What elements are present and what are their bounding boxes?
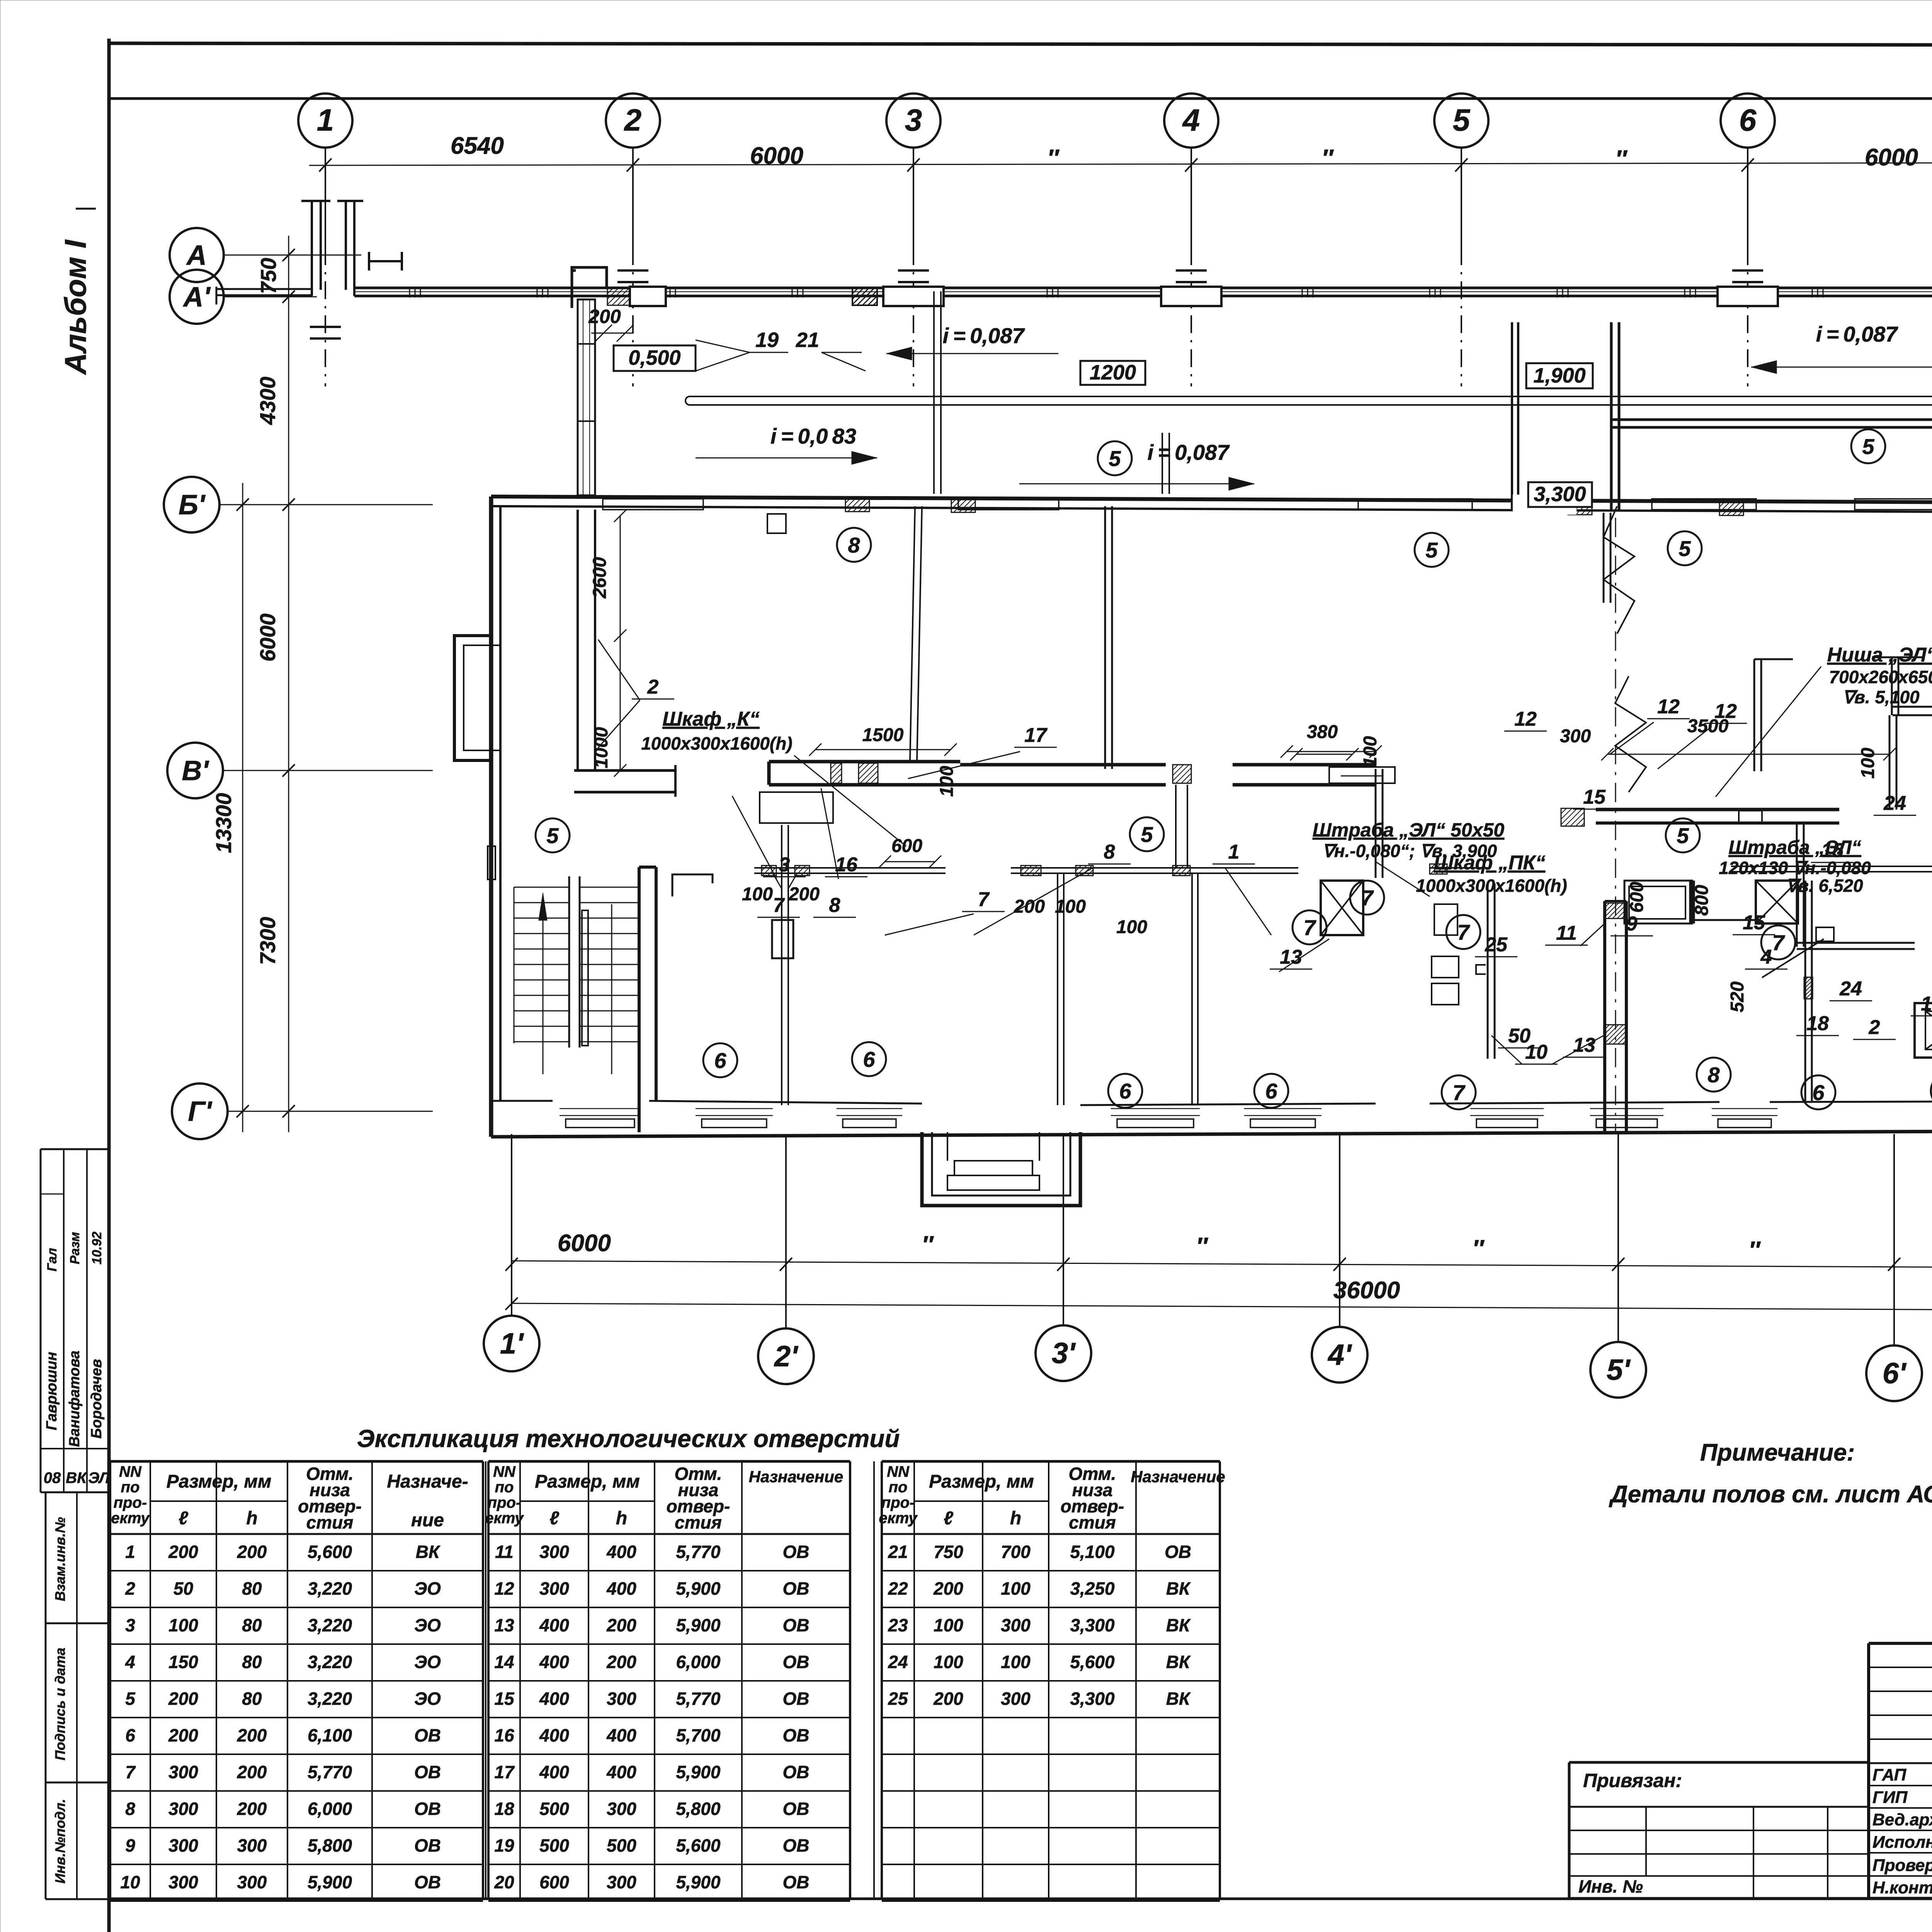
svg-text:100: 100 [934,1652,963,1672]
svg-text:h: h [616,1508,627,1529]
room partition 6-6 a [781,825,782,1105]
svg-text:80: 80 [242,1615,262,1635]
wall y2448 [1797,942,1915,944]
svg-text:ЭЛ: ЭЛ [88,1469,110,1486]
main west wall [489,497,493,1137]
room circle 5 [1130,817,1164,851]
svg-text:Подпись и дата: Подпись и дата [52,1648,68,1760]
svg-text:Инв.№подл.: Инв.№подл. [52,1799,68,1883]
svg-text:7: 7 [1772,930,1785,955]
svg-text:ЭО: ЭО [414,1578,441,1599]
dim tick [505,1298,518,1310]
svg-text:300: 300 [607,1872,636,1892]
svg-text:24: 24 [1839,978,1862,1000]
svg-text:Инв. №: Инв. № [1578,1876,1643,1896]
entrance steps [947,1175,1039,1190]
svg-text:15: 15 [494,1689,515,1709]
svg-text:12: 12 [1657,696,1680,718]
corridor hatch b [795,866,810,876]
partition x4672 hatch [1804,977,1813,999]
axis1 column enclosure [301,201,363,296]
radiator on partition [772,920,793,958]
svg-text:100: 100 [1116,917,1147,937]
explication table 1 [110,1460,483,1463]
svg-text:Бородачев: Бородачев [88,1359,105,1439]
leader 21 [821,352,862,353]
svg-text:300: 300 [168,1835,198,1855]
axis A' circle [170,270,224,324]
svg-text:800: 800 [1692,885,1712,916]
dim tick [236,1105,249,1117]
staircase mid wall [568,876,570,1048]
svg-text:Гаврюшин: Гаврюшин [44,1352,60,1430]
svg-text:стия: стия [675,1512,722,1532]
svg-text:ОВ: ОВ [783,1652,810,1672]
svg-text:100: 100 [1055,896,1086,917]
gamma wall vertical [1889,715,1891,810]
axis 2 circle [606,94,660,148]
corridor hatch e [1173,866,1190,876]
dim tick [1185,158,1197,172]
floor slot opening 21 [685,396,1932,405]
axis 5&#39; circle [1590,1342,1646,1398]
svg-text:ОВ: ОВ [783,1835,810,1855]
axis 5&#39; line [1617,1134,1619,1342]
svg-text:500: 500 [539,1835,569,1855]
south wall window [1244,1108,1321,1109]
north wall windows [603,499,703,510]
partition x3560 [1375,769,1377,878]
svg-text:300: 300 [1560,726,1591,747]
svg-text:200: 200 [933,1578,963,1599]
svg-text:5,900: 5,900 [308,1872,352,1892]
svg-text:i = 0,087: i = 0,087 [1816,322,1899,346]
gallery wall tick marks [409,287,410,298]
svg-text:520: 520 [1727,981,1748,1012]
svg-text:400: 400 [606,1578,636,1599]
axis 4&#39; line [1339,1134,1340,1327]
left stamp name cells [41,1148,109,1150]
lobby wall right [1689,881,1691,923]
svg-text:5,770: 5,770 [308,1762,352,1782]
svg-text:5: 5 [1425,538,1438,562]
svg-text:ОВ: ОВ [783,1799,810,1819]
svg-text:ВК: ВК [1166,1689,1191,1709]
svg-text:200: 200 [237,1725,267,1745]
svg-text:22: 22 [888,1578,908,1599]
svg-text:Примечание:: Примечание: [1700,1439,1855,1466]
svg-text:15: 15 [1583,786,1606,808]
room circle 8 [837,528,871,562]
south wall window [837,1108,902,1109]
room circle 6 [852,1042,886,1076]
south wall window [1470,1108,1544,1109]
svg-text:″: ″ [1748,1237,1761,1264]
svg-text:ОВ: ОВ [414,1799,441,1819]
svg-text:21: 21 [796,328,819,352]
axis 5 circle [1434,94,1488,148]
axis B' leader line [219,504,433,505]
corridor hatch d [1076,866,1093,876]
gamma wall cap [1893,706,1932,708]
gallery wall lower line [354,295,1932,298]
axis 6 line [1747,148,1748,247]
svg-text:4: 4 [125,1652,135,1672]
upper block partition [933,291,935,494]
axis 1&#39; circle [484,1316,539,1371]
svg-text:3,300: 3,300 [1534,483,1586,506]
dim tick [1333,1258,1346,1271]
svg-text:5,100: 5,100 [1070,1542,1115,1562]
svg-text:Назначение: Назначение [749,1468,843,1486]
svg-text:5,900: 5,900 [676,1615,721,1635]
svg-text:80: 80 [242,1689,262,1709]
svg-text:200: 200 [168,1689,198,1709]
svg-text:3500: 3500 [1687,716,1729,736]
wall 3500 thick [1596,808,1839,811]
main north wall upper line [491,497,1932,503]
svg-text:400: 400 [539,1615,569,1635]
svg-text:Б': Б' [179,490,206,520]
title block grid [1869,1642,1932,1645]
svg-text:4': 4' [1327,1338,1352,1371]
mid wall niche b [1329,767,1395,783]
svg-text:80: 80 [242,1652,262,1672]
svg-text:24: 24 [1883,792,1906,815]
corner room west wall lower [577,510,579,770]
svg-text:5,770: 5,770 [676,1689,721,1709]
elevator shaft C [1915,1003,1932,1058]
room circle 8 [1931,1074,1932,1108]
corridor hatch f [1430,864,1447,874]
svg-text:400: 400 [539,1689,569,1709]
svg-text:Провер.: Провер. [1872,1856,1932,1875]
svg-text:19: 19 [755,328,779,352]
svg-text:100: 100 [1858,748,1878,779]
svg-text:5,900: 5,900 [676,1578,721,1599]
svg-text:ОВ: ОВ [414,1872,441,1892]
svg-text:19: 19 [494,1835,514,1855]
svg-text:∇в. 6,520: ∇в. 6,520 [1786,876,1863,896]
axis 5 line [1461,148,1462,247]
svg-text:3: 3 [905,103,922,137]
axis 2&#39; circle [758,1328,814,1384]
svg-text:24: 24 [888,1652,908,1672]
svg-text:″: ″ [1321,145,1334,172]
svg-text:ВК: ВК [1166,1652,1191,1672]
svg-text:17: 17 [494,1762,515,1782]
dim tick [236,498,249,511]
svg-text:6: 6 [1739,103,1757,137]
svg-text:NN: NN [119,1463,142,1480]
svg-text:5,800: 5,800 [308,1835,352,1855]
svg-text:100: 100 [742,884,773,905]
svg-text:200: 200 [168,1725,198,1745]
svg-text:ℓ: ℓ [549,1508,559,1529]
axis B' circle [164,477,219,532]
upper block left window wall [578,299,595,495]
svg-text:200: 200 [606,1652,636,1672]
svg-text:300: 300 [168,1872,198,1892]
svg-text:ние: ние [411,1510,444,1531]
svg-text:400: 400 [606,1725,636,1745]
room circle 6 [1108,1074,1142,1108]
svg-text:100: 100 [1001,1578,1031,1599]
dim tick [282,249,295,261]
svg-text:100: 100 [937,766,957,797]
svg-text:ГИП: ГИП [1872,1788,1908,1807]
svg-text:5,600: 5,600 [1070,1652,1115,1672]
svg-text:ОВ: ОВ [1165,1542,1191,1562]
svg-text:по: по [889,1479,908,1496]
svg-text:5,900: 5,900 [676,1762,721,1782]
svg-text:ВК: ВК [416,1542,440,1562]
svg-text:6000: 6000 [255,614,280,662]
dim tick [627,158,639,172]
svg-text:4: 4 [1182,103,1200,137]
svg-text:ЭО: ЭО [414,1652,441,1672]
axis 1&#39; line [511,1134,512,1316]
room circle 7 [1446,915,1480,949]
mid wall hatch c [1173,765,1191,783]
axis 6&#39; line [1893,1134,1895,1345]
svg-text:20: 20 [494,1872,514,1892]
south wall window [560,1108,641,1109]
inner frame bottom line [109,1898,1932,1900]
dim tick [1455,158,1468,172]
svg-text:1000: 1000 [591,727,612,768]
north wall hatch block d [1719,502,1743,515]
svg-text:∇н.-0,080“; ∇в. 3,900: ∇н.-0,080“; ∇в. 3,900 [1322,841,1497,861]
slope arrow d [1019,483,1254,485]
svg-text:7: 7 [1303,915,1316,940]
svg-text:Исполн.: Исполн. [1872,1833,1932,1852]
svg-text:11: 11 [1556,922,1577,944]
svg-text:ОВ: ОВ [783,1578,810,1599]
room circle 5 upper right [1851,429,1885,463]
svg-text:380: 380 [1307,722,1338,742]
svg-text:А': А' [182,282,211,313]
svg-text:екту: екту [485,1510,524,1527]
svg-text:Г': Г' [188,1096,213,1127]
explication table 3 [882,1460,1220,1463]
svg-text:7: 7 [978,888,990,911]
wall niche detail [1754,659,1793,771]
slope arrow b [1751,367,1932,368]
svg-text:200: 200 [1014,896,1045,917]
north wall hatch block c [1568,501,1592,515]
axis 6&#39; circle [1866,1345,1922,1401]
svg-text:10: 10 [120,1872,140,1892]
svg-text:7: 7 [1457,920,1470,944]
svg-text:400: 400 [539,1725,569,1745]
north wall hatch block b [951,498,975,512]
svg-text:Размер, мм: Размер, мм [535,1471,640,1492]
svg-text:5: 5 [1677,823,1689,848]
svg-text:6,100: 6,100 [308,1725,352,1745]
svg-text:6,000: 6,000 [308,1799,352,1819]
svg-text:стия: стия [1069,1512,1116,1532]
room circle 5 upper mid [1098,441,1132,475]
axis G' circle [172,1083,228,1139]
dim tick [282,1105,295,1117]
stair guide line [611,904,612,1074]
upper partition x3920 [1511,322,1513,510]
svg-text:ЭО: ЭО [414,1689,441,1709]
west protrusion [454,636,491,760]
plan dimension lines [815,749,951,750]
svg-text:18: 18 [494,1799,514,1819]
axis 3 line [913,148,914,247]
svg-text:3,220: 3,220 [308,1689,352,1709]
elevation box 1200 [1080,361,1145,385]
bottom dim line 2 overall [512,1303,1932,1311]
dim tick [1742,158,1754,172]
svg-text:2': 2' [774,1340,799,1373]
album underline [76,208,96,210]
gallery column block at axis [1718,287,1778,306]
svg-text:5,600: 5,600 [308,1542,352,1562]
svg-text:600: 600 [891,836,922,856]
axis5 wall hatch b [1605,1025,1626,1044]
axis 1 line [325,148,326,247]
svg-text:9: 9 [1626,913,1638,935]
axis 4&#39; circle [1312,1327,1367,1383]
gallery hatched block [852,288,877,305]
svg-text:500: 500 [607,1835,636,1855]
svg-text:6: 6 [1119,1079,1131,1103]
staircase handrail [582,910,588,1046]
svg-text:25: 25 [1485,934,1508,956]
svg-text:2: 2 [1869,1016,1880,1039]
svg-text:6: 6 [1265,1079,1277,1103]
stair arrow up [543,900,544,1074]
svg-text:100: 100 [168,1615,198,1635]
room circle 8 [1697,1058,1731,1092]
svg-text:120х130 ∇н.-0,080: 120х130 ∇н.-0,080 [1719,858,1871,878]
svg-text:про-: про- [488,1494,521,1511]
svg-text:300: 300 [237,1835,267,1855]
dim tick [282,764,295,777]
axis mark axis1 [310,326,341,328]
svg-text:1000х300х1600(h): 1000х300х1600(h) [1416,876,1567,896]
svg-text:23: 23 [888,1615,908,1635]
svg-text:″: ″ [1047,145,1060,172]
svg-text:300: 300 [539,1578,569,1599]
upper room west wall [1610,322,1613,510]
svg-text:Детали полов см. лист АС-1: Детали полов см. лист АС-11. [1609,1481,1932,1508]
svg-text:1200: 1200 [1090,361,1136,384]
svg-text:5: 5 [1862,434,1874,459]
svg-text:3,250: 3,250 [1070,1578,1115,1599]
svg-text:80: 80 [242,1578,262,1599]
svg-text:ВК: ВК [1166,1615,1191,1635]
svg-text:4: 4 [1760,946,1772,968]
axis 2&#39; line [785,1134,787,1328]
svg-text:500: 500 [539,1799,569,1819]
svg-text:2: 2 [624,103,642,137]
svg-text:2: 2 [647,676,659,698]
svg-text:13: 13 [1573,1034,1595,1056]
svg-text:ОВ: ОВ [783,1542,810,1562]
svg-text:ВК: ВК [66,1469,87,1486]
svg-text:h: h [1010,1508,1021,1529]
svg-text:″: ″ [1615,146,1628,172]
svg-text:Привязан:: Привязан: [1583,1770,1682,1791]
partition mid-to-corridor [1175,785,1177,868]
svg-text:6: 6 [125,1725,135,1745]
mid wall hatch b [859,763,878,783]
left overall dim line [242,483,243,1132]
svg-text:стия: стия [306,1512,354,1532]
room circle 7 [1761,925,1795,959]
svg-text:3: 3 [779,854,790,876]
svg-text:6': 6' [1883,1357,1907,1390]
privyazan block [1569,1761,1869,1764]
svg-text:5': 5' [1607,1354,1631,1386]
svg-text:600: 600 [539,1872,569,1892]
svg-text:6540: 6540 [451,133,504,159]
svg-text:0,500: 0,500 [628,346,680,369]
svg-text:6000: 6000 [750,143,803,169]
slope arrow a [886,353,1058,354]
room circle 6 [703,1043,737,1077]
partition x2360 lower [910,506,915,762]
south wall window [1111,1108,1200,1109]
south wall window [1590,1108,1663,1109]
corner room dim line [620,516,621,770]
svg-text:Штраба „ЭЛ“ 50х50: Штраба „ЭЛ“ 50х50 [1313,819,1505,841]
corridor hatch a [762,866,776,876]
svg-text:50: 50 [173,1578,194,1599]
svg-text:200: 200 [237,1799,267,1819]
svg-text:3,300: 3,300 [1070,1615,1115,1635]
south entrance protrusion [922,1132,1080,1206]
svg-text:ОВ: ОВ [414,1725,441,1745]
leader 19 [750,352,788,353]
corridor wall north [754,867,946,869]
svg-text:200: 200 [237,1762,267,1782]
svg-text:300: 300 [607,1689,636,1709]
inner frame top line [109,97,1932,100]
svg-text:про-: про- [114,1494,147,1511]
elevation box 1.900 [1526,363,1593,388]
room circle 5 [1668,531,1702,565]
svg-text:4300: 4300 [255,377,280,425]
axis5 center line [1615,518,1616,1132]
svg-text:8: 8 [848,533,860,557]
svg-text:700х260х650 (h): 700х260х650 (h) [1829,667,1932,687]
main south wall outer [491,1131,1932,1137]
svg-text:Вед.арх: Вед.арх [1872,1810,1932,1829]
dim tick [319,158,332,172]
top dimension line [309,162,1932,165]
svg-text:08: 08 [44,1469,61,1486]
I-beam symbol left [369,260,402,262]
axis 6 circle [1721,94,1775,148]
svg-text:ОВ: ОВ [414,1762,441,1782]
bottom dim line 1 [512,1261,1932,1268]
svg-text:про-: про- [881,1494,915,1511]
svg-text:11: 11 [495,1542,514,1562]
svg-text:15: 15 [1743,912,1765,934]
svg-text:3': 3' [1052,1337,1076,1370]
axis 3&#39; circle [1036,1325,1091,1381]
svg-text:5: 5 [1141,822,1153,847]
svg-text:6,000: 6,000 [676,1652,721,1672]
svg-text:по: по [121,1479,140,1496]
small room step [1476,965,1486,974]
